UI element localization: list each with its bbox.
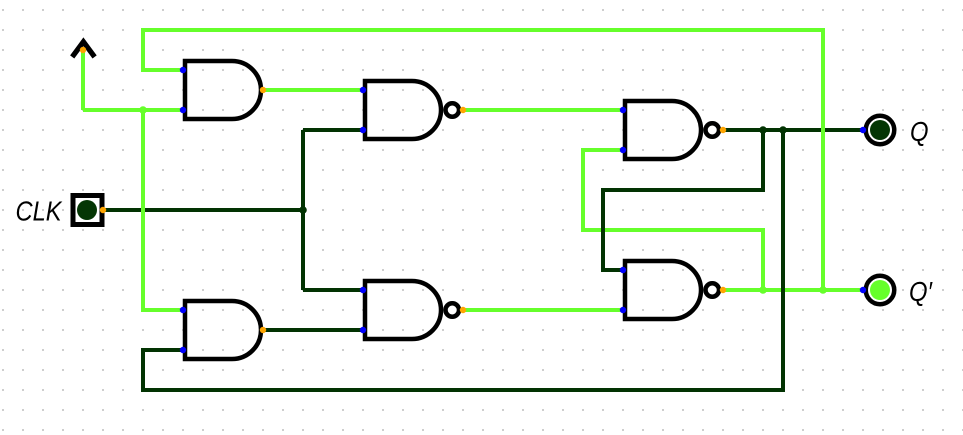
port U4 output [260, 327, 266, 333]
wire Q net from U3 output to Q pin [723, 128, 863, 132]
wire U6 output branch to U3 lower input [583, 150, 763, 290]
svg-text:Q′: Q′ [909, 276, 933, 307]
port U1 input A [180, 67, 186, 73]
nand-gate U5 [365, 281, 459, 339]
wire U2 output to U3 upper input [463, 108, 623, 112]
nand-gate U3 [625, 101, 719, 159]
nand-gate U2 [365, 81, 459, 139]
pin Q' output [866, 276, 895, 305]
node junction power/U1/U4 [139, 106, 147, 114]
port U5 output [460, 307, 466, 313]
wire U1 output to U2 upper input [263, 88, 363, 92]
port U4 input B [180, 347, 186, 353]
wire U5 output to U6 lower input [463, 308, 623, 312]
port U1 output [260, 87, 266, 93]
wire Q' net from U6 output to Q' pin [723, 288, 863, 292]
port U5 input B [360, 327, 366, 333]
port U1 input B [180, 107, 186, 113]
node junction Q to U6 [759, 126, 767, 134]
port U2 input A [360, 87, 366, 93]
port U2 input B [360, 127, 366, 133]
port U2 output [460, 107, 466, 113]
port power output [80, 47, 86, 53]
port Q' pin input [860, 287, 866, 293]
port U3 input A [620, 107, 626, 113]
port U5 input A [360, 287, 366, 293]
pin CLK input [73, 196, 102, 225]
node junction CLK [299, 206, 307, 214]
wire Q feedback to U4 lower input [143, 130, 783, 390]
pin Q output [866, 116, 895, 145]
node junction Q' feedback [819, 286, 827, 294]
wire junction to U1 lower input [143, 108, 183, 112]
wire junction down to U4 upper input [143, 110, 183, 310]
wire U4 output to U5 lower input [263, 328, 363, 332]
wire CLK to U2 lower input [303, 128, 363, 132]
svg-text:Q: Q [910, 116, 929, 147]
wire CLK output run [103, 208, 303, 212]
port U6 input A [620, 267, 626, 273]
node junction Q to U4 [779, 126, 787, 134]
port U6 output [720, 287, 726, 293]
wire power output vertical [81, 50, 85, 110]
and-gate U1 [185, 61, 261, 119]
port U4 input A [180, 307, 186, 313]
nand-gate U6 [625, 261, 719, 319]
port Q pin input [860, 127, 866, 133]
and-gate U4 [185, 301, 261, 359]
svg-text:CLK: CLK [16, 196, 63, 227]
port U6 input B [620, 307, 626, 313]
node junction Q' to U3 [759, 286, 767, 294]
wire Q feedback to U6 upper input [603, 130, 763, 270]
port U3 output [720, 127, 726, 133]
port U3 input B [620, 147, 626, 153]
wire CLK vertical branch [301, 130, 305, 290]
wire Q' feedback to U1 upper input [143, 30, 823, 290]
power V1 arrow symbol [72, 42, 94, 57]
wire CLK to U5 upper input [303, 288, 363, 292]
wire power to junction [83, 108, 143, 112]
port CLK output [100, 207, 106, 213]
